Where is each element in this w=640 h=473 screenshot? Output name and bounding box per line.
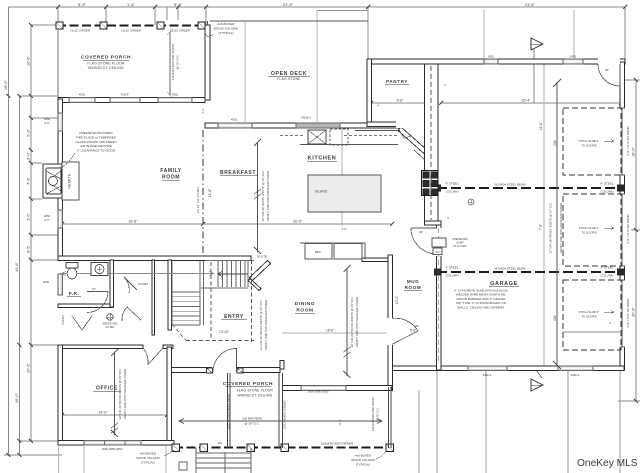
top dim texts — [78, 2, 536, 7]
svg-text:TO DOORS: TO DOORS — [581, 144, 596, 148]
svg-text:4052: 4052 — [79, 93, 86, 97]
svg-text:WALLS, CEILING AND GIRDERS: WALLS, CEILING AND GIRDERS — [458, 305, 505, 309]
driveway lines — [419, 371, 620, 473]
svg-text:4'-6": 4'-6" — [27, 177, 31, 185]
stair top boundary — [205, 260, 254, 262]
wall entry front — [167, 368, 280, 373]
stairs left run treads — [172, 292, 200, 325]
left dimension line outer — [8, 7, 10, 455]
svg-text:WOOD COLUMN: WOOD COLUMN — [351, 458, 375, 462]
svg-text:DO: DO — [553, 315, 557, 320]
svg-text:FAMILY: FAMILY — [160, 168, 182, 174]
svg-text:OneKey MLS: OneKey MLS — [577, 458, 638, 469]
svg-text:VERIFY SIZE WITH MANUFACTURER: VERIFY SIZE WITH MANUFACTURER — [266, 171, 270, 222]
svg-text:COLUMN: COLUMN — [600, 190, 613, 194]
wall closet right / entry left — [168, 260, 172, 330]
verify size notes (rotated pairs) — [118, 170, 563, 419]
svg-text:4" STEEL: 4" STEEL — [600, 182, 613, 186]
wall office right — [167, 347, 172, 445]
svg-text:DN: DN — [218, 441, 222, 445]
right dim extension stubs — [618, 80, 640, 401]
svg-text:13'-10": 13'-10" — [219, 330, 229, 334]
pantry corner sink notch — [398, 128, 412, 138]
svg-text:PANTRY: PANTRY — [386, 79, 408, 84]
svg-text:DN: DN — [436, 250, 440, 254]
door garage top-right corner — [598, 64, 620, 88]
opening garage-mudroom door — [436, 228, 443, 256]
svg-text:5'-3": 5'-3" — [27, 129, 31, 137]
triangle marker top — [531, 38, 543, 50]
svg-text:MUD: MUD — [407, 279, 419, 284]
garage dim extension x534 — [533, 48, 535, 103]
svg-text:2x8 RAFTERS AND JOISTS: 2x8 RAFTERS AND JOISTS — [371, 397, 375, 431]
rafter span arrow bottom porch — [179, 419, 382, 424]
wall family room top — [58, 98, 205, 103]
svg-text:14'-0": 14'-0" — [99, 411, 108, 415]
svg-text:DINING: DINING — [295, 301, 315, 307]
svg-text:3452-2: 3452-2 — [571, 373, 580, 377]
window garage bottom 2 — [558, 366, 593, 371]
steel beam 2 — [437, 271, 621, 273]
svg-text:CLOSET: CLOSET — [138, 283, 148, 286]
wall breakfast-kitchen top — [205, 123, 402, 128]
wall PR bottom — [58, 304, 113, 308]
svg-text:23'-4": 23'-4" — [522, 99, 531, 103]
office bottom dim line — [62, 414, 167, 416]
door office — [144, 348, 164, 365]
entry ceiling dashed — [172, 260, 254, 342]
wall pantry bottom — [367, 122, 398, 127]
svg-text:8'-5": 8'-5" — [27, 245, 31, 253]
svg-text:4" STEEL: 4" STEEL — [445, 182, 458, 186]
svg-text:REF: REF — [315, 250, 322, 254]
kitchen island — [308, 175, 381, 212]
svg-text:VERIFY SIZE WITH MANUFACTURER: VERIFY SIZE WITH MANUFACTURER — [355, 297, 359, 348]
top porch girder dashed — [57, 25, 205, 27]
window garage bottom 1 — [468, 366, 507, 371]
svg-text:4" STEEL: 4" STEEL — [445, 266, 458, 270]
sump closet box — [432, 238, 446, 247]
room label mud room — [405, 279, 422, 290]
svg-text:HEARTH: HEARTH — [68, 173, 72, 188]
window dining bottom — [301, 386, 346, 391]
deck roof line — [317, 10, 368, 12]
svg-text:12x12 GIRDER: 12x12 GIRDER — [70, 29, 90, 33]
svg-text:COLUMN: COLUMN — [445, 190, 458, 194]
room label covered porch top — [81, 55, 131, 71]
svg-text:COVERED PORCH: COVERED PORCH — [81, 55, 131, 61]
wall garage right — [620, 62, 625, 370]
stairs right run treads — [172, 261, 254, 326]
doors (arcs) — [72, 64, 620, 373]
fireplace chimney box — [43, 164, 62, 198]
wall office left — [58, 345, 63, 445]
joist arrow breakfast — [254, 139, 261, 254]
svg-text:(2) 12" LVL FLUSH: (2) 12" LVL FLUSH — [196, 187, 200, 212]
window family top 3 — [158, 98, 192, 103]
dim extension x342 — [341, 128, 343, 226]
wall pantry left — [367, 59, 372, 126]
svg-text:18'-8": 18'-8" — [128, 220, 138, 224]
svg-text:21'-9": 21'-9" — [283, 2, 294, 7]
svg-text:10'-6": 10'-6" — [27, 56, 31, 66]
svg-text:TO DOORS: TO DOORS — [581, 231, 596, 235]
wall PR right — [110, 260, 114, 307]
svg-text:3452-2: 3452-2 — [483, 373, 492, 377]
opening garage right OH doors — [619, 108, 626, 175]
pantry dim line — [371, 102, 429, 104]
joist arrow office — [111, 349, 118, 437]
svg-text:VERIFY SIZE WITH MANUFACTURER: VERIFY SIZE WITH MANUFACTURER — [264, 300, 268, 351]
svg-text:CO DET: CO DET — [105, 326, 115, 329]
deck top edge — [210, 20, 368, 22]
svg-text:2x8 RAFTERS: 2x8 RAFTERS — [242, 417, 262, 421]
pitch slab labels — [579, 139, 599, 319]
svg-text:9'-0" x 8'-0" OH DOOR: 9'-0" x 8'-0" OH DOOR — [626, 214, 630, 243]
svg-text:@ 16" O.C.: @ 16" O.C. — [176, 54, 180, 69]
wall porch-deck divider — [205, 25, 210, 100]
pitch slab dashed box 3 — [563, 280, 621, 350]
garage interior dim x544 — [543, 64, 545, 366]
heat register — [468, 199, 474, 205]
svg-text:BREAKFAST: BREAKFAST — [220, 170, 256, 176]
wall garage+mud bottom — [392, 366, 624, 371]
svg-text:14'-8": 14'-8" — [208, 188, 212, 197]
wall pantry right / garage left upper — [425, 64, 439, 223]
front door jamb blocks — [207, 368, 244, 373]
left dim texts rotated — [4, 56, 31, 403]
opening garage top right door — [598, 58, 620, 65]
DN box mudroom-garage — [433, 248, 442, 255]
joist arrow dining — [344, 265, 351, 378]
svg-text:PREFAB WOOD FIRED: PREFAB WOOD FIRED — [79, 131, 113, 135]
door mudroom from dining — [393, 318, 419, 344]
svg-text:WAINSCOT CEILING: WAINSCOT CEILING — [88, 66, 124, 70]
extension lines below office — [59, 445, 167, 473]
smoke det label — [103, 323, 118, 330]
wall stair corner angled — [248, 279, 261, 291]
svg-text:9'-0" x 8'-0" OH DOOR: 9'-0" x 8'-0" OH DOOR — [626, 126, 630, 155]
window family left 2 — [58, 210, 63, 228]
svg-text:5'-9": 5'-9" — [78, 2, 87, 7]
wall office bottom — [58, 441, 174, 446]
left dimension line inner — [30, 25, 32, 441]
svg-text:20'-9": 20'-9" — [27, 363, 31, 373]
svg-text:12" GFI-40 TRUSS JOISTS @ 16": 12" GFI-40 TRUSS JOISTS @ 16" O.C. — [118, 368, 122, 419]
svg-text:16'-8": 16'-8" — [326, 329, 334, 333]
svg-text:18'-0": 18'-0" — [632, 147, 636, 157]
svg-text:30'-6": 30'-6" — [293, 220, 303, 224]
bottom porch notes — [136, 417, 375, 467]
windows — [58, 59, 593, 445]
door garage-mudroom — [411, 228, 437, 254]
misc small dims — [92, 68, 612, 328]
steel beam 1 — [437, 187, 621, 189]
room label covered porch bottom — [223, 381, 274, 398]
door PR — [87, 292, 108, 313]
kitchen steel column hatch block — [422, 171, 439, 196]
svg-text:CM35-3: CM35-3 — [301, 116, 311, 120]
family interior dim line — [61, 272, 214, 276]
entry dim line y333 — [282, 332, 392, 334]
garage note — [454, 289, 508, 310]
svg-text:12" GFI-2B TRUSS JOISTS @ 16": 12" GFI-2B TRUSS JOISTS @ 16" O.C. — [549, 202, 553, 254]
wall family room bottom / PR top — [58, 256, 251, 261]
svg-text:ROOM: ROOM — [405, 285, 422, 290]
interior dim line family/kitchen y224 — [62, 223, 392, 225]
top porch column note — [214, 22, 238, 35]
svg-text:5'-9": 5'-9" — [174, 2, 183, 7]
fireplace firebox — [46, 168, 61, 194]
fireplace hearth slab — [62, 162, 79, 200]
svg-text:VERIFY SIZE WITH MANUFACTURER: VERIFY SIZE WITH MANUFACTURER — [559, 203, 563, 254]
svg-text:W14X04 STEEL BEAM: W14X04 STEEL BEAM — [494, 183, 526, 187]
room label open deck — [271, 71, 307, 81]
garage top dim line — [441, 102, 621, 104]
svg-text:5'-8": 5'-8" — [410, 329, 416, 333]
window PR left — [58, 274, 63, 295]
LVL flush beam dash-dot — [202, 130, 204, 256]
svg-text:WOOD COLUMN: WOOD COLUMN — [136, 456, 160, 460]
rafter arrow porch top — [167, 29, 173, 98]
window office bottom — [84, 441, 141, 446]
room label dining room — [295, 301, 315, 314]
svg-text:2650-2650-2650: 2650-2650-2650 — [308, 390, 329, 394]
stair up arrow — [218, 272, 248, 277]
svg-text:36": 36" — [605, 68, 609, 72]
svg-text:W14X04 STEEL BEAM: W14X04 STEEL BEAM — [494, 267, 526, 271]
svg-text:2046: 2046 — [43, 280, 50, 284]
wall entry-dining angled — [250, 261, 271, 281]
bottom porch columns — [172, 444, 394, 452]
smoke detector symbol — [107, 314, 114, 320]
porch girder verticals — [279, 373, 283, 448]
svg-text:3'-0": 3'-0" — [27, 152, 31, 160]
wall closet divider — [152, 260, 155, 335]
svg-text:PITCH SLAB 1": PITCH SLAB 1" — [579, 139, 599, 143]
wall pantry+garage top — [367, 59, 625, 64]
deck left edge upper — [207, 21, 209, 25]
svg-text:36": 36" — [419, 230, 423, 234]
pitch slab dashed box 2 — [563, 194, 621, 266]
cabinet box — [334, 244, 362, 260]
room label family room — [160, 168, 182, 181]
svg-text:TO DOORS: TO DOORS — [581, 315, 596, 319]
deck roof lines — [245, 11, 317, 124]
refrigerator box — [305, 244, 332, 260]
svg-text:4052: 4052 — [231, 118, 238, 122]
sump note — [452, 238, 467, 248]
office window mullions — [105, 441, 126, 446]
triangle marker bottom — [531, 370, 543, 391]
svg-text:PITCH SLAB 1": PITCH SLAB 1" — [579, 310, 599, 314]
window centers white — [60, 62, 592, 443]
right dimension line — [635, 80, 637, 401]
svg-text:(TYPICAL): (TYPICAL) — [356, 463, 371, 467]
kitchen upper cabinets dashed — [280, 135, 398, 137]
wall A dashed centerline — [430, 66, 432, 220]
wall dining bottom — [283, 386, 393, 391]
svg-text:2650-2650-2650: 2650-2650-2650 — [102, 447, 123, 451]
svg-text:P.R.: P.R. — [69, 291, 80, 296]
door entry front: leaf+arc — [213, 348, 237, 372]
svg-text:4x6 BOXED: 4x6 BOXED — [355, 454, 372, 458]
svg-text:WAINSCOT CEILING: WAINSCOT CEILING — [238, 394, 273, 398]
opening mudroom-dining door — [387, 318, 394, 345]
svg-text:FLAG STONE FLOOR: FLAG STONE FLOOR — [87, 62, 125, 66]
svg-text:23'-6": 23'-6" — [525, 2, 536, 7]
sink PR — [91, 263, 108, 276]
svg-text:GARAGE: GARAGE — [490, 281, 518, 287]
svg-text:2'-6": 2'-6" — [44, 218, 50, 222]
window garage top 1 — [484, 59, 498, 64]
left dim extension stubs — [4, 7, 62, 455]
dashed appliance box — [330, 129, 348, 145]
svg-text:4'-0": 4'-0" — [341, 227, 347, 231]
door closet A diagonal leaf — [124, 277, 137, 293]
svg-text:4x6 BOXED: 4x6 BOXED — [140, 452, 157, 456]
svg-text:10'-4": 10'-4" — [395, 296, 399, 304]
mud porch edge verticals — [389, 387, 392, 448]
window family top 2 — [110, 98, 140, 103]
stair railing — [200, 261, 248, 325]
wall family room left — [58, 99, 63, 260]
svg-text:3452: 3452 — [488, 55, 495, 59]
window slider kitchen — [296, 123, 340, 128]
svg-text:AIR INTAKE PROVIDE: AIR INTAKE PROVIDE — [80, 144, 112, 148]
window garage top 2 — [563, 59, 583, 64]
svg-text:12" GFI-20 TRUSS JOISTS @ 16": 12" GFI-20 TRUSS JOISTS @ 16" O.C. — [261, 170, 265, 221]
svg-text:AT CLOSET: AT CLOSET — [453, 245, 467, 248]
svg-text:COVERED PORCH: COVERED PORCH — [223, 381, 273, 387]
svg-text:VERIFY SIZE WITH MANUFACTURER: VERIFY SIZE WITH MANUFACTURER — [123, 369, 127, 420]
svg-text:OFFICE: OFFICE — [96, 386, 118, 392]
wall kitchen diagonal — [398, 127, 427, 154]
wall dining west stub — [280, 361, 284, 370]
svg-text:7'-6": 7'-6" — [539, 224, 543, 230]
wall mudroom top / counter edge — [362, 258, 388, 262]
window breakfast — [218, 123, 252, 128]
svg-text:ISLAND: ISLAND — [315, 190, 328, 194]
door openings: white gaps — [212, 58, 626, 374]
front steps — [179, 448, 251, 473]
wall dining-mud divider — [388, 255, 393, 391]
window labels — [43, 55, 580, 452]
svg-text:COLUMN: COLUMN — [445, 274, 458, 278]
svg-text:44'-6": 44'-6" — [15, 262, 19, 272]
svg-text:28'-0": 28'-0" — [15, 393, 19, 403]
svg-text:12x12 BOXED RIDGE BEAM: 12x12 BOXED RIDGE BEAM — [227, 394, 231, 430]
top dimension line — [58, 6, 625, 8]
bottom porch girder dashed — [174, 447, 394, 449]
steel column blocks beam ends — [434, 185, 624, 276]
svg-text:4" STEEL: 4" STEEL — [600, 266, 613, 270]
top dim drop lines — [58, 7, 625, 62]
svg-text:GLASS DOORS AND FRESH: GLASS DOORS AND FRESH — [75, 140, 116, 144]
svg-text:DO: DO — [553, 140, 557, 145]
svg-text:FLAG STONE: FLAG STONE — [277, 77, 301, 81]
pitch slab dashed box 1 — [563, 108, 621, 175]
svg-text:3'-1": 3'-1" — [201, 108, 205, 114]
svg-text:COLUMN: COLUMN — [600, 274, 613, 278]
steel beam labels — [445, 182, 613, 278]
REF counter — [300, 243, 365, 260]
svg-text:WOOD COLUMN: WOOD COLUMN — [214, 26, 238, 30]
kitchen counter edge — [300, 131, 424, 160]
svg-text:9'-0": 9'-0" — [338, 419, 342, 425]
svg-text:2'-6": 2'-6" — [44, 121, 50, 125]
svg-text:ROOM: ROOM — [296, 308, 313, 314]
svg-text:16'-0": 16'-0" — [4, 80, 8, 90]
svg-text:@ 16" O.C.: @ 16" O.C. — [244, 422, 259, 426]
svg-text:3'-0": 3'-0" — [27, 213, 31, 221]
fireplace note — [75, 131, 116, 153]
svg-text:11'-6": 11'-6" — [539, 122, 543, 130]
svg-text:ENTRY: ENTRY — [224, 314, 244, 320]
svg-text:12x12 BOXED GIRDER: 12x12 BOXED GIRDER — [283, 401, 287, 430]
svg-text:FIRE PLACE w/ TEMPERED: FIRE PLACE w/ TEMPERED — [76, 135, 117, 139]
window family top 1 — [69, 98, 95, 103]
garage slab line — [563, 331, 621, 333]
svg-text:1" CLEARANCE TO WOOD: 1" CLEARANCE TO WOOD — [77, 149, 116, 153]
DO joist arrow garage — [553, 79, 561, 369]
svg-text:36": 36" — [415, 324, 419, 328]
opening pantry door — [396, 121, 408, 128]
svg-text:FLAG STONE FLOOR: FLAG STONE FLOOR — [237, 389, 274, 393]
right dim texts — [632, 147, 636, 317]
stair left edge — [172, 262, 200, 325]
svg-text:6'-6": 6'-6" — [397, 99, 405, 103]
svg-text:12" GFI-20 TRUSS JOISTS @ 16": 12" GFI-20 TRUSS JOISTS @ 16" O.C. — [350, 296, 354, 347]
wall garage left lower — [437, 225, 442, 370]
svg-text:24": 24" — [92, 287, 96, 291]
door closet B diagonal leaf — [122, 307, 141, 321]
svg-text:10 LITE: 10 LITE — [257, 255, 267, 259]
svg-text:PITCH SLAB 1": PITCH SLAB 1" — [579, 226, 599, 230]
svg-text:(2)2x8 BOXED GIRDER: (2)2x8 BOXED GIRDER — [321, 442, 354, 446]
svg-text:4052: 4052 — [172, 93, 179, 97]
OH door threshold lines — [620, 108, 625, 347]
left dimension line mid — [19, 96, 21, 455]
top porch columns — [56, 22, 205, 29]
svg-text:ROOM: ROOM — [162, 175, 180, 181]
porch left edge — [57, 29, 59, 97]
svg-text:4'x5'8": 4'x5'8" — [121, 93, 129, 97]
svg-text:9'-0" x 8'-0" OH DOOR: 9'-0" x 8'-0" OH DOOR — [626, 298, 630, 327]
wall office top — [58, 345, 143, 349]
range box with X — [308, 130, 326, 144]
porch ridge beam — [228, 373, 231, 448]
mud room wall dashed centerline — [438, 228, 440, 364]
svg-text:CLOSET: CLOSET — [62, 315, 65, 325]
wall garage left jog — [425, 221, 442, 225]
svg-text:(TYPICAL): (TYPICAL) — [141, 461, 156, 465]
window family left 1 — [58, 113, 63, 131]
svg-text:12x12 GIRDER: 12x12 GIRDER — [170, 29, 190, 33]
svg-text:(TYPICAL): (TYPICAL) — [219, 31, 234, 35]
svg-text:1'-6": 1'-6" — [127, 2, 136, 7]
svg-text:KITCHEN: KITCHEN — [308, 156, 337, 162]
opening entry front door — [212, 367, 237, 374]
svg-text:3452: 3452 — [570, 55, 577, 59]
toilet PR — [66, 263, 78, 280]
svg-text:12x12 GIRDER: 12x12 GIRDER — [121, 29, 141, 33]
svg-text:4x6 BOXED: 4x6 BOXED — [218, 22, 235, 26]
svg-text:20'-6": 20'-6" — [632, 307, 636, 317]
svg-text:2x8 RAFTERS AND JOISTS: 2x8 RAFTERS AND JOISTS — [171, 44, 175, 81]
svg-text:12" GFI-20 TRUSS JOISTS @ 16": 12" GFI-20 TRUSS JOISTS @ 16" O.C. — [259, 299, 263, 350]
svg-text:@ 16" O.C.: @ 16" O.C. — [376, 407, 380, 421]
